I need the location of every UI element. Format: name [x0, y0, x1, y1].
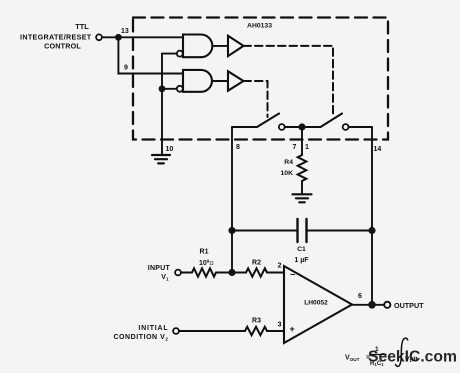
wire junction down to pin 9 row: [118, 37, 183, 73]
svg-text:R2: R2: [252, 260, 261, 267]
svg-text:INPUT: INPUT: [148, 265, 171, 272]
svg-text:TTL: TTL: [75, 22, 89, 31]
wire op-amp output: [352, 304, 384, 306]
junction C1 right node: [368, 227, 375, 234]
ground R4: [293, 194, 312, 202]
terminal INPUT V1: [175, 270, 181, 276]
NAND gate U1a: [177, 35, 213, 58]
wire common junction down to R4: [301, 127, 303, 155]
control wire dashed U1d to switch S1: [244, 81, 268, 117]
wire switch row left corner: [232, 126, 257, 128]
wire terminal to junction: [102, 36, 119, 38]
terminal INITIAL CONDITION V2: [173, 328, 179, 334]
svg-text:LH0052: LH0052: [304, 300, 328, 307]
svg-text:R1: R1: [200, 249, 209, 256]
control wire dashed U1b to switch S2: [244, 46, 334, 117]
wire pin 13 to gate U1a input: [118, 36, 183, 38]
junction switch common node: [298, 123, 305, 130]
wire gate U1c output to buffer: [213, 80, 228, 82]
ground pin 10: [152, 155, 170, 163]
junction summing node: [228, 269, 235, 276]
wire to C1 left plate: [232, 230, 298, 232]
switch S2: [302, 114, 349, 130]
svg-text:6: 6: [358, 293, 362, 300]
formula Vout = 1/R1C1 integral V1 dt: [345, 346, 418, 367]
svg-text:C1: C1: [297, 246, 306, 253]
svg-text:7: 7: [293, 144, 297, 151]
capacitor C1: [298, 219, 307, 242]
switch S1: [257, 114, 285, 130]
wire R4 to ground: [301, 181, 303, 194]
wire terminal to R1: [181, 272, 192, 274]
svg-text:R3: R3: [252, 318, 261, 325]
resistor R4: [298, 155, 307, 181]
wire S2 to right corner: [349, 126, 373, 128]
junction C1 left node: [228, 227, 235, 234]
integral sign: [396, 338, 408, 366]
svg-text:+: +: [290, 324, 295, 334]
svg-text:10: 10: [166, 146, 174, 153]
wire S1 to common junction: [285, 126, 302, 128]
svg-text:1: 1: [305, 144, 309, 151]
svg-text:VOUT: VOUT: [345, 355, 360, 363]
svg-text:CONTROL: CONTROL: [44, 42, 81, 51]
buffer U1d: [228, 71, 244, 90]
wire gate U1a output to buffer: [213, 45, 228, 47]
svg-text:SeekIC.com: SeekIC.com: [368, 349, 457, 366]
svg-text:2: 2: [278, 263, 282, 270]
svg-text:−: −: [290, 270, 295, 280]
IC AH0133 dashed outline: [133, 18, 388, 140]
svg-text:INTEGRATE/RESET: INTEGRATE/RESET: [20, 33, 92, 42]
resistor R3: [245, 327, 267, 335]
svg-text:3: 3: [278, 322, 282, 329]
wire R2 to op-amp pin 2: [267, 272, 284, 274]
svg-text:OUTPUT: OUTPUT: [394, 301, 424, 310]
svg-text:1 µF: 1 µF: [294, 257, 309, 264]
wire R1 to summing node: [216, 272, 246, 274]
junction tie node: [159, 85, 166, 92]
junction output node: [368, 301, 376, 309]
svg-text:V1: V1: [161, 274, 169, 282]
label R1 10^9 ohm: [199, 249, 214, 268]
wire C1 right plate to right vertical: [307, 230, 373, 232]
resistor R1: [192, 268, 216, 276]
svg-text:14: 14: [374, 146, 382, 153]
junction control node: [115, 34, 122, 41]
wire left vertical pin 8 to summing node: [231, 127, 233, 273]
svg-text:INITIAL: INITIAL: [138, 325, 168, 332]
svg-text:AH0133: AH0133: [247, 23, 272, 30]
wire U1c bubble to tie line: [162, 88, 177, 90]
svg-text:109Ω: 109Ω: [199, 259, 214, 268]
resistor R2: [246, 268, 267, 276]
svg-text:9: 9: [124, 65, 128, 72]
label INITIAL CONDITION V2: [113, 325, 168, 342]
label TTL INTEGRATE/RESET CONTROL: [20, 22, 92, 51]
label C1 1uF: [294, 246, 309, 264]
op-amp U2 LH0052: [284, 266, 352, 343]
NAND gate U1c: [177, 70, 212, 92]
svg-text:10K: 10K: [281, 170, 294, 177]
svg-text:13: 13: [121, 28, 129, 35]
wire right vertical pin 14 to output node: [371, 127, 373, 305]
wire R3 to op-amp pin 3: [267, 330, 284, 332]
wire inverting-input tie line: [162, 54, 177, 155]
label INPUT V1: [148, 265, 171, 282]
label R4 10K: [281, 159, 294, 177]
terminal TTL control input: [96, 34, 102, 40]
svg-text:R4: R4: [284, 159, 293, 166]
fraction bar: [370, 354, 386, 356]
svg-text:8: 8: [236, 144, 240, 151]
wire terminal to R3: [179, 330, 245, 332]
buffer U1b: [228, 36, 244, 56]
terminal OUTPUT: [384, 302, 390, 308]
svg-text:CONDITION V2: CONDITION V2: [113, 334, 168, 342]
